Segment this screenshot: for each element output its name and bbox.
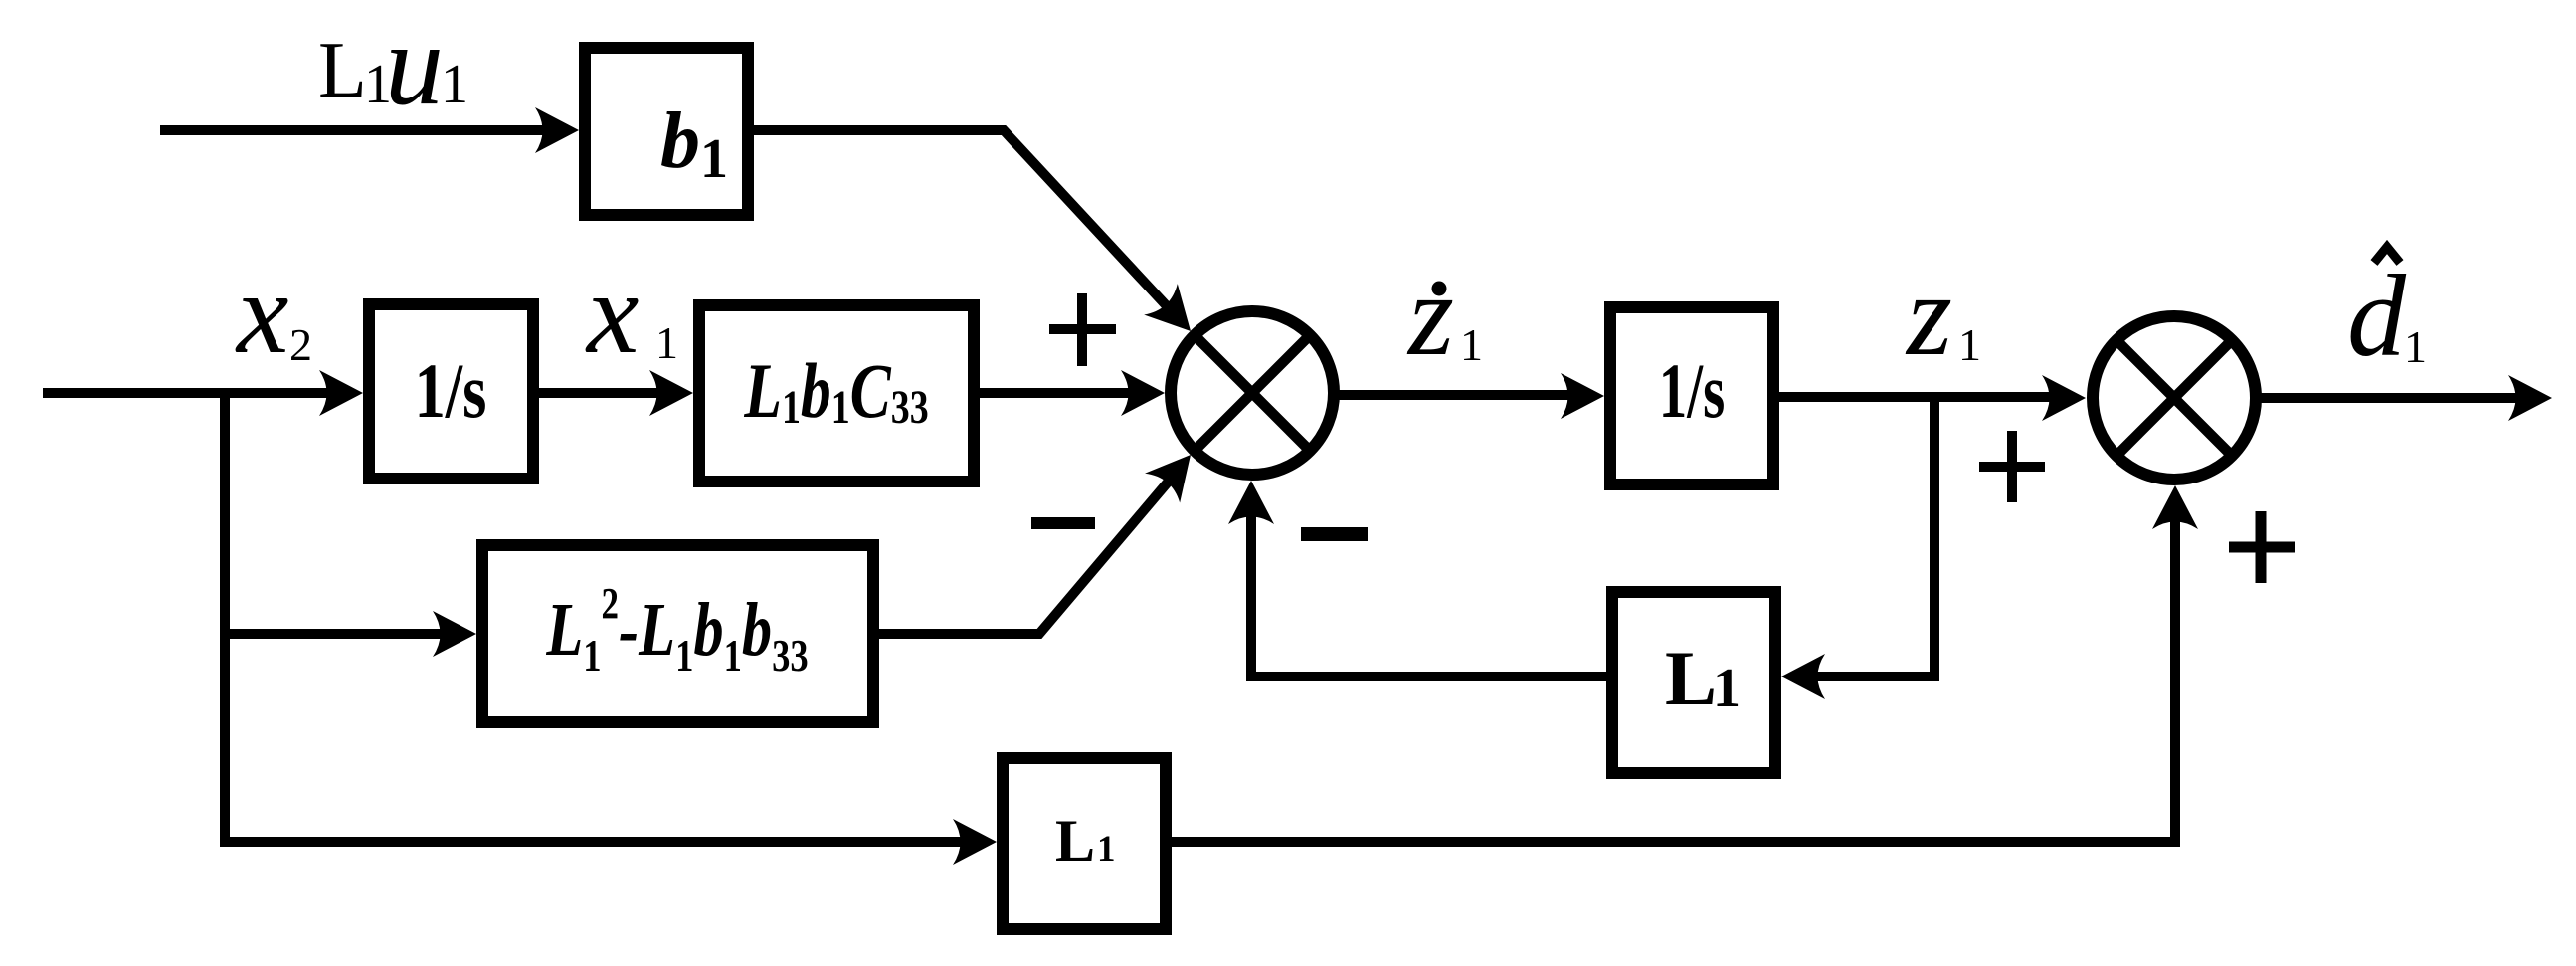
svg-text:1: 1 xyxy=(655,317,678,368)
svg-text:1: 1 xyxy=(1460,319,1483,370)
svg-text:u: u xyxy=(385,0,444,129)
svg-text:L: L xyxy=(318,27,367,114)
svg-text:z: z xyxy=(1406,250,1454,380)
svg-text:1: 1 xyxy=(700,128,728,190)
svg-text:1/s: 1/s xyxy=(415,349,487,435)
svg-text:2: 2 xyxy=(289,319,312,370)
svg-text:1: 1 xyxy=(2404,321,2427,372)
svg-text:1/s: 1/s xyxy=(1659,347,1725,434)
svg-text:1: 1 xyxy=(441,54,468,115)
svg-text:d: d xyxy=(2347,251,2407,381)
svg-text:x: x xyxy=(585,248,639,378)
svg-text:L: L xyxy=(1055,808,1095,873)
svg-text:1: 1 xyxy=(1713,658,1741,719)
svg-text:L: L xyxy=(1665,635,1717,721)
svg-text:x: x xyxy=(235,248,288,378)
svg-text:1: 1 xyxy=(1958,319,1981,370)
svg-text:1: 1 xyxy=(1097,829,1116,869)
svg-text:z: z xyxy=(1905,250,1952,380)
svg-text:b: b xyxy=(660,97,700,185)
